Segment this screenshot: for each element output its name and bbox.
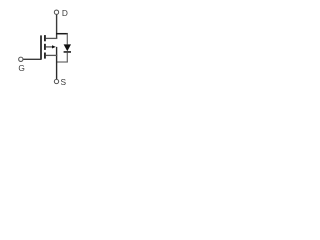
channel segment middle xyxy=(44,44,46,50)
wire source vertical xyxy=(56,47,58,80)
channel segment top xyxy=(44,35,46,41)
wire bottom stub xyxy=(46,54,58,56)
arrow body terminal xyxy=(52,45,56,48)
diode D1 triangle xyxy=(64,44,71,51)
svg-text:G: G xyxy=(18,63,24,73)
channel segment bottom xyxy=(44,53,46,59)
wire middle stub xyxy=(46,46,53,48)
wire drain vertical xyxy=(56,15,58,39)
wire diode top xyxy=(66,33,68,44)
wire top stub xyxy=(46,37,58,39)
wire diode bottom xyxy=(66,53,68,62)
wire gate xyxy=(23,58,42,60)
svg-text:S: S xyxy=(61,77,67,87)
terminal G xyxy=(19,57,23,61)
svg-text:D: D xyxy=(62,8,68,18)
terminal D xyxy=(54,10,58,14)
wire diode to source xyxy=(57,61,68,63)
terminal S xyxy=(54,79,58,83)
diode D1 cathode bar xyxy=(64,51,71,53)
gate bar xyxy=(40,35,42,59)
wire drain to diode xyxy=(56,33,68,35)
